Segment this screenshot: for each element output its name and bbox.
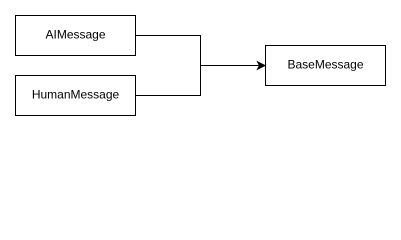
svg-text:BaseMessage: BaseMessage: [287, 58, 363, 72]
svg-text:AIMessage: AIMessage: [45, 28, 105, 42]
svg-text:HumanMessage: HumanMessage: [32, 88, 120, 102]
